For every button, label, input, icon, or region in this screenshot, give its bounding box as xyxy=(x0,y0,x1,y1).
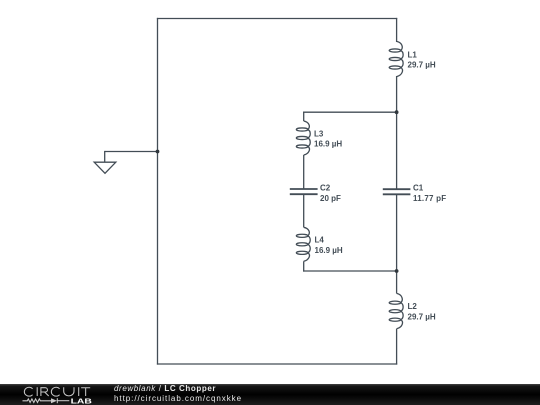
svg-text:L1: L1 xyxy=(408,50,418,59)
wire inner branch upper lead xyxy=(303,112,305,121)
inductor L2 xyxy=(389,293,403,328)
svg-text:16.9 µH: 16.9 µH xyxy=(314,140,342,149)
wire left xyxy=(157,18,159,365)
svg-text:http://circuitlab.com/cqnxkke: http://circuitlab.com/cqnxkke xyxy=(114,394,242,403)
svg-text:29.7 µH: 29.7 µH xyxy=(408,61,436,70)
wire inner bottom xyxy=(303,270,397,272)
svg-text:29.7 µH: 29.7 µH xyxy=(408,312,436,321)
svg-text:C2: C2 xyxy=(320,184,331,193)
wire inner mid upper xyxy=(303,155,305,189)
svg-text:L3: L3 xyxy=(314,129,324,138)
inductor L3 xyxy=(296,121,310,155)
wire right mid upper xyxy=(396,76,398,189)
logo resistor-diode icon xyxy=(23,398,70,403)
svg-text:C1: C1 xyxy=(413,184,424,193)
node junction right upper xyxy=(395,110,399,114)
wire right top lead xyxy=(396,18,398,42)
wire ground vertical xyxy=(104,151,106,162)
wire right bottom lead xyxy=(396,329,398,365)
svg-text:L4: L4 xyxy=(315,236,325,245)
footer bar xyxy=(0,384,540,405)
ground symbol G1 xyxy=(94,162,116,173)
svg-text:11.77 pF: 11.77 pF xyxy=(413,194,446,203)
wire inner mid lower xyxy=(303,194,305,227)
capacitor C1 xyxy=(383,189,411,194)
capacitor C2 xyxy=(290,189,318,194)
svg-text:20 pF: 20 pF xyxy=(320,194,341,203)
svg-text:L2: L2 xyxy=(408,302,418,311)
node junction left (ground tie) xyxy=(156,150,160,154)
inductor L1 xyxy=(389,41,403,76)
svg-text:LAB: LAB xyxy=(71,396,93,405)
node junction right lower xyxy=(395,269,399,273)
svg-text:16.9 µH: 16.9 µH xyxy=(315,246,343,255)
wire bottom xyxy=(157,363,397,365)
wire inner branch lower lead xyxy=(303,261,305,271)
wire inner top xyxy=(303,111,397,113)
wire right mid lower xyxy=(396,194,398,293)
wire ground horizontal xyxy=(105,151,158,153)
logo CIRCUIT lettering xyxy=(24,387,90,396)
wire top xyxy=(157,18,397,20)
inductor L4 xyxy=(296,227,310,261)
svg-text:drewblank / LC Chopper: drewblank / LC Chopper xyxy=(114,384,216,393)
